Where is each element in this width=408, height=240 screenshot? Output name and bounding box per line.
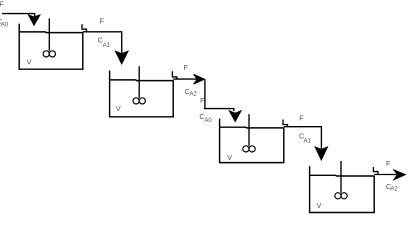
arrow into tank 4 (315, 147, 327, 160)
wire outlet T4 (374, 174, 397, 176)
tank T3 (CSTR) (220, 119, 288, 163)
svg-text:F: F (184, 63, 189, 72)
stirrer tank T2 (133, 66, 145, 104)
arrow into tank 2 (115, 51, 128, 64)
svg-text:V: V (317, 201, 322, 210)
arrow into tank 1 (29, 15, 40, 25)
svg-text:A1: A1 (103, 43, 111, 49)
svg-text:A0: A0 (1, 23, 9, 29)
label CA0 feed 1 (0, 17, 9, 29)
arrow into tank 3 (229, 111, 241, 122)
svg-text:V: V (227, 153, 232, 162)
stirrer tank T3 (243, 114, 255, 152)
stirrer tank T1 (43, 18, 55, 57)
arrow outlet T4 pointing right (394, 170, 405, 180)
label CA2 outlet T2 (185, 87, 198, 97)
svg-text:A2: A2 (390, 187, 398, 193)
svg-text:V: V (27, 57, 32, 66)
tank T2 (CSTR) (110, 71, 177, 117)
wire outlet T1 to T2 (83, 32, 122, 54)
label CA1 stream T1 to T2 (98, 36, 111, 49)
label CA1 stream T3 to T4 (299, 132, 312, 145)
wire outlet T3 to T4 (284, 127, 322, 150)
svg-text:A1: A1 (304, 139, 312, 145)
tank T1 (CSTR) (19, 24, 86, 70)
stirrer tank T4 (335, 161, 347, 199)
label CA0 feed 2 (199, 112, 212, 124)
svg-text:F: F (299, 114, 304, 123)
svg-text:F: F (386, 159, 391, 168)
wire feed line into tank 1 (2, 14, 35, 17)
svg-text:F: F (100, 17, 105, 26)
svg-text:F: F (0, 0, 4, 9)
svg-text:V: V (116, 104, 121, 113)
label CA2 outlet T4 (386, 182, 398, 193)
wire outlet T2 (173, 78, 197, 80)
svg-text:A2: A2 (189, 91, 197, 97)
arrow outlet T2 pointing right (194, 74, 205, 84)
svg-text:A0: A0 (204, 118, 212, 124)
tank T4 (CSTR) (310, 166, 378, 212)
wire feed line into tank 3 (204, 79, 234, 111)
